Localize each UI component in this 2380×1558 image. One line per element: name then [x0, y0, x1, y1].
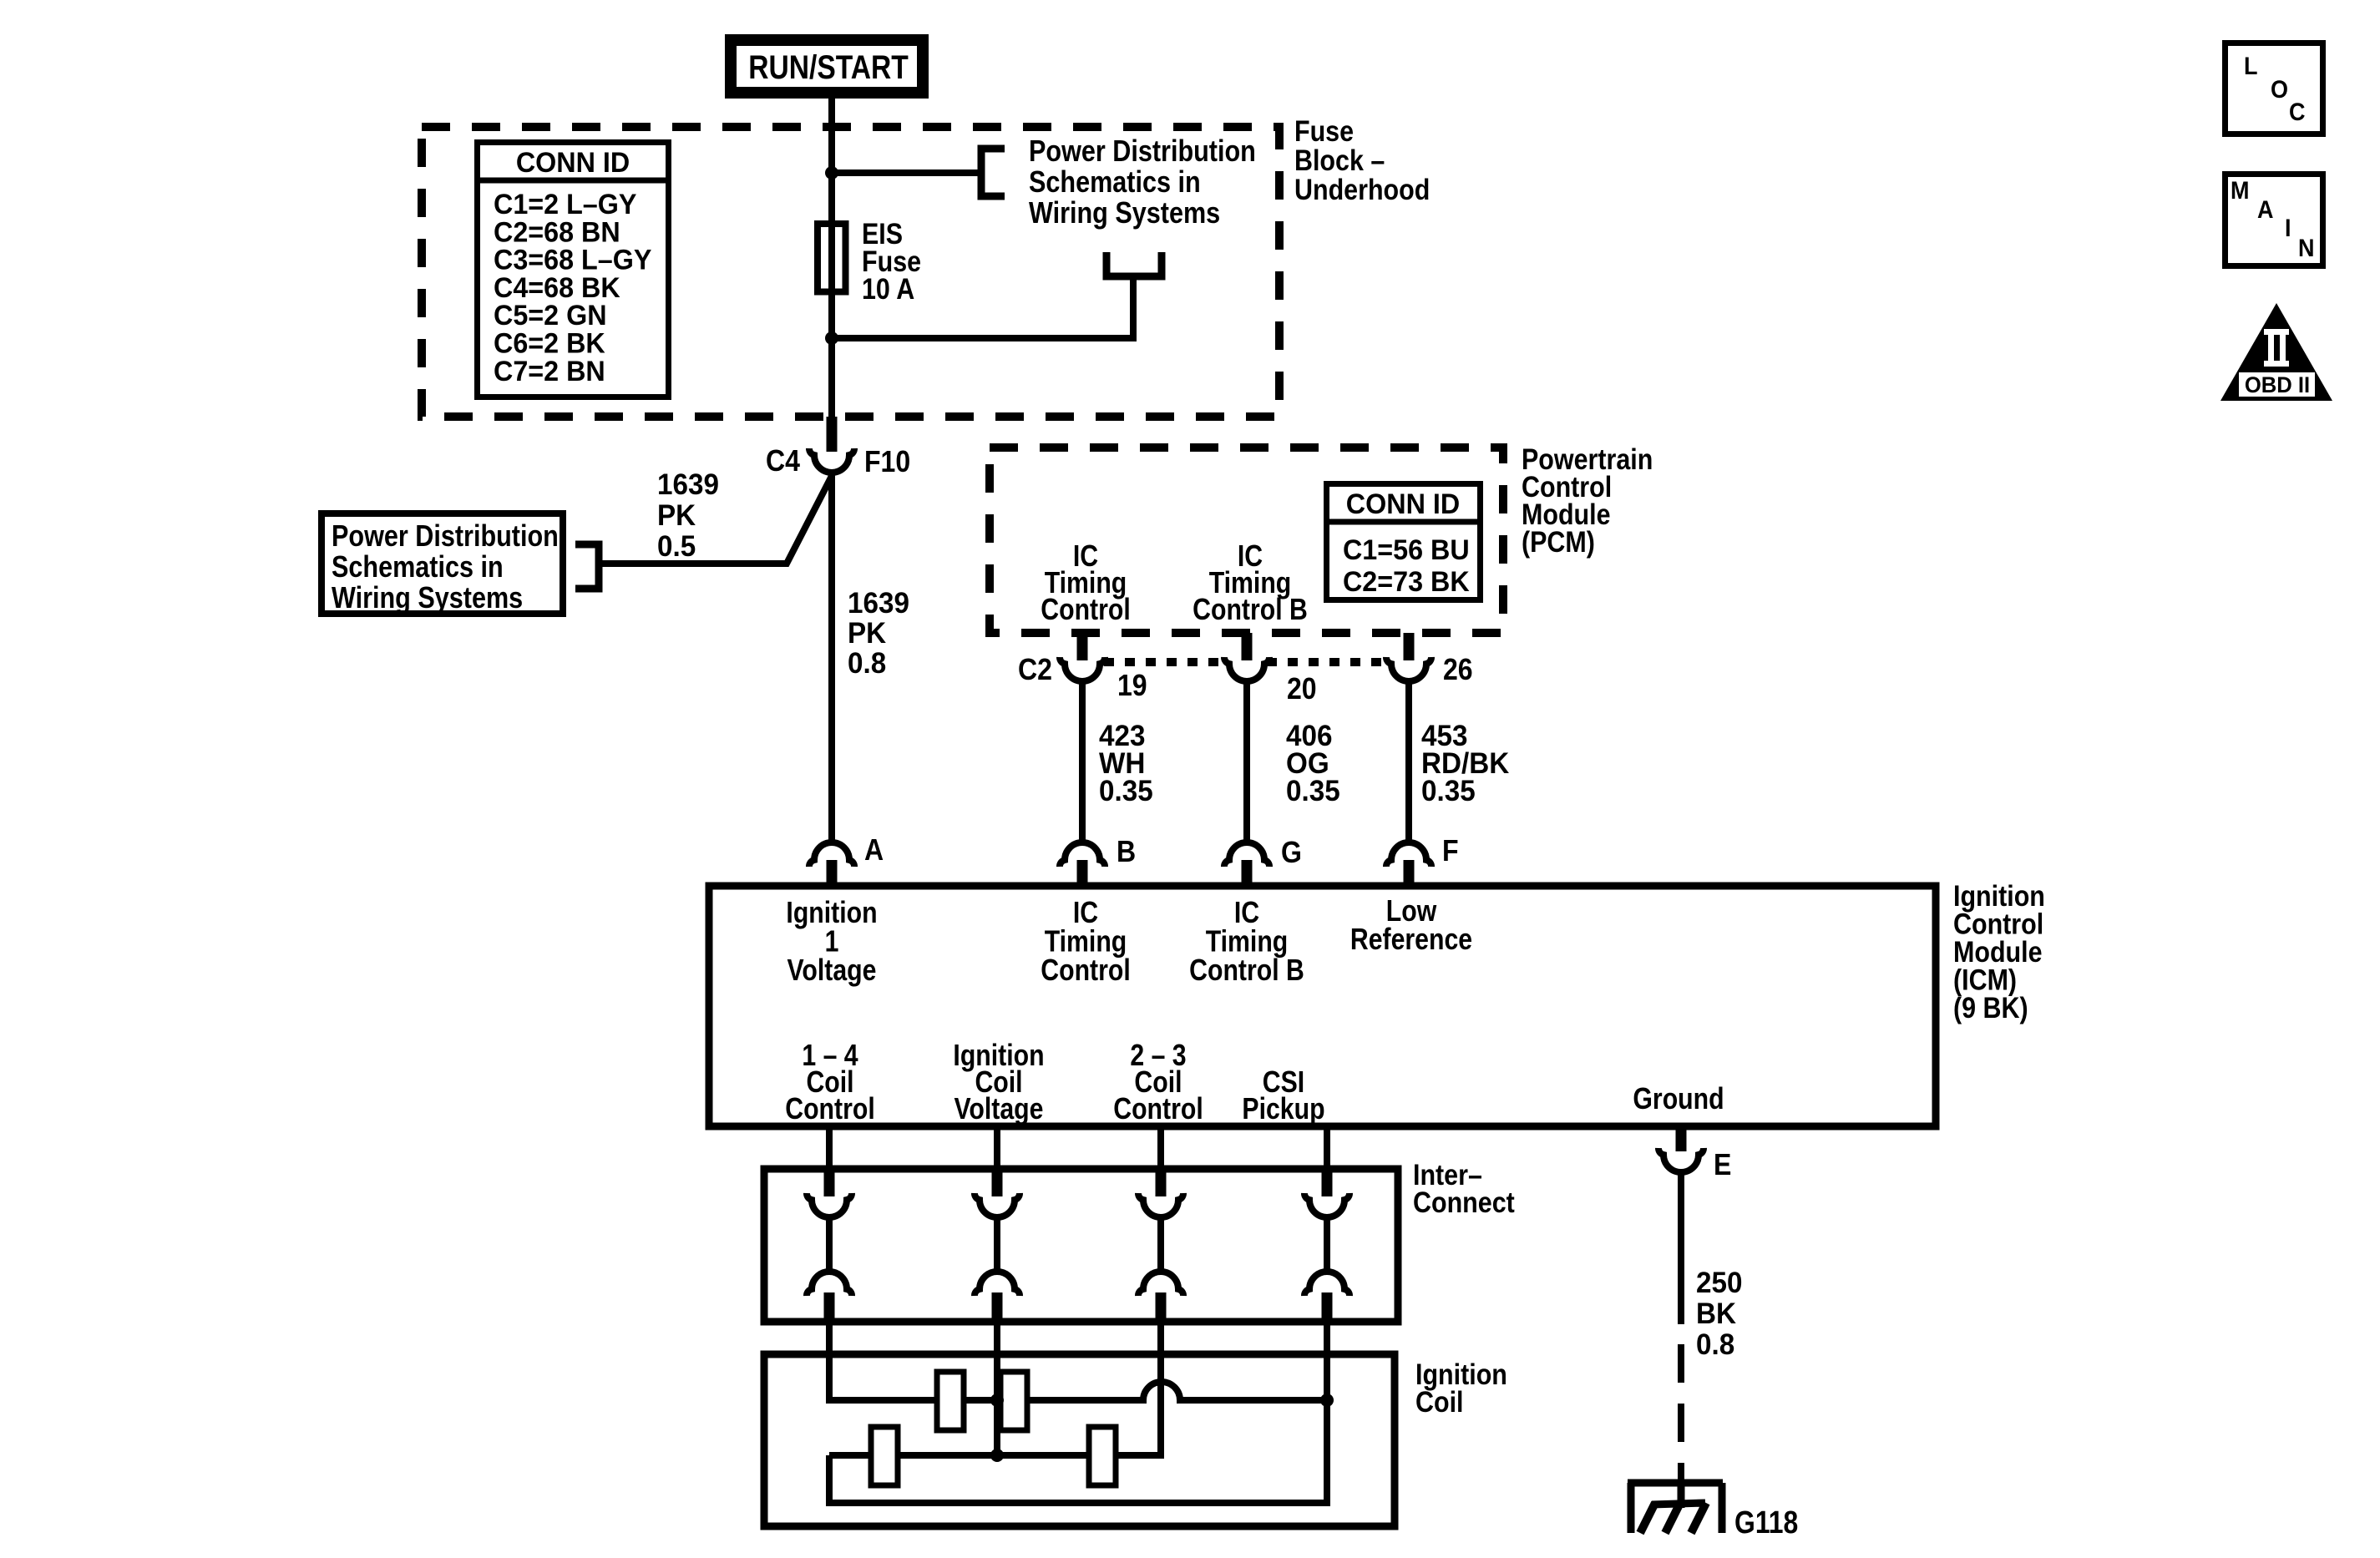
wire 453 RD/BK pin26 to ICM F: [1405, 681, 1412, 843]
svg-text:Pickup: Pickup: [1242, 1093, 1324, 1126]
svg-text:Control B: Control B: [1189, 954, 1304, 988]
label pin F: [1442, 834, 1459, 868]
svg-text:BK: BK: [1696, 1297, 1736, 1330]
power feed box RUN/START: [731, 40, 923, 93]
svg-text:Underhood: Underhood: [1294, 173, 1430, 205]
label RUN/START: [748, 48, 909, 85]
ICM pin F arc: [1386, 842, 1431, 867]
wire row2 left drop: [826, 1455, 833, 1506]
svg-text:1639: 1639: [657, 468, 719, 501]
label wire 406 OG 0.35: [1286, 720, 1332, 752]
PCM pin 19 stub: [1077, 633, 1088, 660]
label EIS fuse 10A: [862, 217, 903, 250]
svg-text:250: 250: [1696, 1267, 1742, 1299]
svg-text:0.35: 0.35: [1421, 775, 1476, 807]
PCM pin 19 arc: [1060, 657, 1105, 681]
svg-text:PK: PK: [657, 499, 696, 532]
ICM pin G stub: [1242, 860, 1253, 886]
svg-text:Power Distribution: Power Distribution: [1029, 135, 1256, 169]
ignition coil box: [764, 1354, 1395, 1526]
svg-text:OBD II: OBD II: [2245, 372, 2310, 397]
svg-text:Ground: Ground: [1633, 1083, 1724, 1116]
svg-text:C1=2 L–GY: C1=2 L–GY: [494, 189, 636, 220]
svg-text:Schematics in: Schematics in: [1029, 166, 1201, 200]
svg-text:N: N: [2298, 235, 2314, 263]
svg-text:26: 26: [1443, 653, 1473, 686]
interconnect pass-through connector 2: [992, 1169, 1003, 1196]
svg-text:(9 BK): (9 BK): [1953, 991, 2028, 1024]
svg-text:RUN/START: RUN/START: [748, 48, 909, 85]
svg-text:C2: C2: [1018, 653, 1052, 686]
wire ignition feed vertical (fuse block): [828, 127, 835, 417]
junction row2 coil voltage: [990, 1449, 1004, 1462]
wire branch to power distribution schematics (top): [832, 169, 981, 176]
wire 250 BK from pin E: [1678, 1172, 1684, 1324]
ICM pin F stub: [1404, 860, 1415, 886]
label G118: [1734, 1505, 1798, 1540]
svg-text:F: F: [1442, 834, 1459, 868]
svg-text:G118: G118: [1734, 1505, 1798, 1540]
wire 406 OG pin20 to ICM G: [1243, 681, 1250, 843]
svg-text:C7=2 BN: C7=2 BN: [494, 356, 605, 387]
wire 1-4 coil control to interconnect: [826, 1126, 833, 1171]
svg-text:I: I: [2285, 215, 2291, 243]
connector table CONN ID (fuse block) title: [516, 147, 630, 179]
powertrain control module dashed box: [990, 448, 1503, 633]
label pin 19: [1117, 669, 1147, 702]
label ignition control module ICM 9 BK: [1953, 879, 2045, 912]
wire CSI pickup into coil box: [1324, 1322, 1330, 1506]
symbol MAIN box: [2226, 175, 2323, 266]
svg-text:Connect: Connect: [1413, 1186, 1515, 1218]
wire RUN/START to fuse block: [828, 96, 835, 134]
ICM pin G arc: [1224, 842, 1269, 867]
wire diagonal branch to power distribution reference: [600, 476, 832, 564]
svg-text:Voltage: Voltage: [955, 1093, 1044, 1126]
connector table CONN ID (fuse block) divider: [474, 178, 671, 184]
wire 2-3 coil control to interconnect: [1157, 1126, 1164, 1171]
label IC timing control (ICM): [1073, 897, 1098, 930]
ICM pin A arc: [809, 842, 854, 867]
svg-text:Wiring Systems: Wiring Systems: [332, 582, 523, 615]
svg-text:Coil: Coil: [1415, 1385, 1464, 1418]
svg-text:L: L: [2244, 53, 2257, 81]
coil winding C (2-3): [871, 1427, 898, 1485]
label interconnect: [1413, 1158, 1482, 1191]
off-page bracket power distribution (top): [981, 149, 1005, 196]
interconnect box: [764, 1169, 1398, 1322]
connector table CONN ID (fuse block) rows: [494, 189, 636, 220]
junction row1 csi return: [1320, 1394, 1334, 1407]
label fuse block underhood: [1294, 114, 1354, 147]
symbol OBD II band: [2239, 372, 2315, 397]
label pin G: [1281, 836, 1302, 869]
off-page socket symbol (underhood): [1106, 252, 1162, 276]
reference box power distribution schematics: [322, 513, 563, 614]
svg-text:(PCM): (PCM): [1522, 525, 1595, 558]
svg-text:G: G: [1281, 836, 1302, 869]
PCM pin 20 arc: [1224, 657, 1269, 681]
svg-text:0.5: 0.5: [657, 530, 696, 563]
off-page bracket power distribution (left): [575, 544, 599, 589]
label ignition 1 voltage: [786, 897, 877, 930]
junction row1 coil voltage: [990, 1394, 1004, 1407]
label C4: [766, 444, 800, 478]
wire 1639 PK 0.8 to ICM pin A: [828, 473, 835, 843]
svg-text:Wiring Systems: Wiring Systems: [1029, 197, 1220, 230]
svg-text:A: A: [864, 833, 884, 867]
symbol OBD II roman numeral: [2264, 329, 2289, 335]
label ground (ICM): [1633, 1083, 1724, 1116]
label IC timing control B (PCM): [1238, 540, 1263, 574]
wire 1-4 coil control into coil box: [826, 1322, 833, 1404]
symbol LOC box: [2226, 43, 2323, 134]
label wire 1639 PK 0.8: [848, 587, 909, 620]
connector table CONN ID (fuse block) box: [478, 143, 669, 397]
ICM pin E arc: [1658, 1148, 1704, 1172]
label wire 423 WH 0.35: [1099, 720, 1145, 752]
svg-text:PK: PK: [848, 617, 887, 650]
svg-text:0.8: 0.8: [848, 647, 886, 680]
svg-text:C2=73 BK: C2=73 BK: [1343, 566, 1470, 598]
svg-text:C6=2 BK: C6=2 BK: [494, 328, 605, 360]
svg-text:CONN ID: CONN ID: [1346, 488, 1460, 520]
svg-text:Control: Control: [1041, 594, 1130, 627]
label E: [1714, 1148, 1731, 1181]
ICM pin B arc: [1060, 842, 1105, 867]
connector table CONN ID (PCM) box: [1327, 484, 1481, 600]
junction node underhood branch: [825, 331, 838, 345]
svg-text:E: E: [1714, 1148, 1731, 1181]
fuse EIS 10A body: [818, 224, 846, 292]
svg-text:Control B: Control B: [1193, 594, 1308, 627]
svg-text:O: O: [2271, 76, 2288, 104]
wire coil bottom return: [829, 1500, 1327, 1506]
wire ignition coil voltage to interconnect: [994, 1126, 1000, 1171]
svg-text:Control: Control: [1041, 954, 1130, 988]
coil primary row 1 with hop: [829, 1382, 1327, 1400]
connector C4 F10 arc: [809, 448, 854, 473]
svg-text:Block –: Block –: [1294, 144, 1385, 176]
svg-text:10 A: 10 A: [862, 272, 914, 305]
svg-text:B: B: [1117, 835, 1136, 868]
connector table CONN ID (PCM) divider: [1324, 519, 1483, 525]
svg-text:A: A: [2257, 196, 2273, 225]
svg-text:Reference: Reference: [1350, 923, 1472, 957]
label 2-3 coil control: [1130, 1040, 1186, 1073]
svg-text:Voltage: Voltage: [787, 954, 877, 988]
label pin B: [1117, 835, 1136, 868]
ICM pin B stub: [1077, 860, 1088, 886]
interconnect pass-through connector 4: [1322, 1169, 1333, 1196]
svg-text:Control: Control: [785, 1093, 874, 1126]
svg-text:Control: Control: [1113, 1093, 1203, 1126]
svg-text:0.35: 0.35: [1099, 775, 1153, 807]
connector table CONN ID (PCM) title: [1346, 488, 1460, 520]
label power distribution schematics (left box): [332, 520, 559, 554]
label wire 250 BK 0.8: [1696, 1267, 1742, 1299]
ignition control module box: [709, 886, 1936, 1126]
symbol OBD II triangle: [2220, 303, 2332, 401]
ground G118 symbol: [1678, 1480, 1685, 1508]
svg-text:M: M: [2231, 177, 2249, 205]
connector C2 dotted line: [1104, 658, 1227, 666]
fuse block underhood dashed box: [422, 127, 1279, 417]
svg-text:C5=2 GN: C5=2 GN: [494, 300, 607, 331]
svg-text:20: 20: [1287, 672, 1317, 706]
junction node power distribution branch: [825, 166, 838, 180]
label wire 1639 PK 0.5: [657, 468, 719, 501]
label C2: [1018, 653, 1052, 686]
svg-text:0.35: 0.35: [1286, 775, 1340, 807]
svg-text:C4=68 BK: C4=68 BK: [494, 272, 620, 304]
label IC timing control B (ICM): [1234, 897, 1259, 930]
interconnect pass-through connector 3: [1156, 1169, 1167, 1196]
label IC timing control (PCM): [1073, 540, 1098, 574]
wire 423 WH pin19 to ICM B: [1079, 681, 1086, 843]
PCM pin 26 stub: [1404, 633, 1415, 660]
svg-text:C: C: [2289, 99, 2305, 127]
label power distribution schematics (top): [1029, 135, 1256, 169]
svg-text:Power Distribution: Power Distribution: [332, 520, 559, 554]
label CSI pickup: [1263, 1066, 1304, 1100]
wire branch to underhood socket: [832, 279, 1133, 338]
wire CSI pickup to interconnect: [1324, 1126, 1330, 1171]
connector table CONN ID (PCM) rows: [1343, 534, 1470, 566]
svg-text:19: 19: [1117, 669, 1147, 702]
coil primary row 2: [829, 1452, 1162, 1459]
ICM pin E stub: [1676, 1126, 1687, 1151]
wire 2-3 coil control into coil box: [1157, 1322, 1164, 1459]
svg-text:C2=68 BN: C2=68 BN: [494, 217, 620, 249]
svg-text:C4: C4: [766, 444, 800, 478]
svg-text:0.8: 0.8: [1696, 1328, 1734, 1361]
symbol LOC letters: [2244, 53, 2257, 81]
label low reference: [1386, 895, 1437, 928]
symbol MAIN letters: [2231, 177, 2249, 205]
svg-text:Fuse: Fuse: [1294, 114, 1354, 147]
label wire 453 RD/BK 0.35: [1421, 720, 1467, 752]
label pin 20: [1287, 672, 1317, 706]
PCM pin 26 arc: [1386, 657, 1431, 681]
coil winding D (2-3): [1089, 1427, 1116, 1485]
wire 250 BK dashed to G118: [1678, 1344, 1684, 1480]
label pin A: [864, 833, 884, 867]
coil winding A (1-4): [937, 1372, 964, 1430]
svg-text:C1=56 BU: C1=56 BU: [1343, 534, 1470, 566]
label ignition coil: [1415, 1358, 1507, 1390]
svg-text:Schematics in: Schematics in: [332, 551, 504, 584]
label F10: [864, 445, 910, 478]
label pin 26: [1443, 653, 1473, 686]
interconnect pass-through connector 1: [824, 1169, 835, 1196]
svg-text:C3=68 L–GY: C3=68 L–GY: [494, 245, 651, 276]
label powertrain control module (PCM): [1522, 443, 1653, 475]
svg-text:F10: F10: [864, 445, 910, 478]
wire ignition coil voltage into coil box: [994, 1322, 1000, 1459]
ICM pin A stub: [827, 860, 838, 886]
coil winding B (1-4): [1000, 1372, 1027, 1430]
svg-text:CONN ID: CONN ID: [516, 147, 630, 179]
label ignition coil voltage: [953, 1040, 1044, 1073]
connector C4 F10 stub: [827, 417, 838, 452]
label 1-4 coil control: [802, 1040, 858, 1073]
svg-text:1639: 1639: [848, 587, 909, 620]
PCM pin 20 stub: [1242, 633, 1253, 660]
